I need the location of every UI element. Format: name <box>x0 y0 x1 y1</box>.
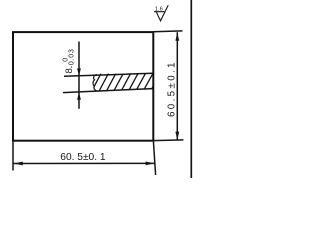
bottom dim right arrow <box>146 162 155 166</box>
drawing frame right border <box>190 0 192 178</box>
right dim upper arrow <box>175 32 179 41</box>
right extension line below part <box>153 141 155 175</box>
part outline (square 60.5 x 60.5) <box>13 32 153 141</box>
right dimension line 60.5 <box>176 32 178 140</box>
local-section wavy boundary <box>93 74 97 91</box>
svg-text:1.6: 1.6 <box>155 6 163 12</box>
bottom extension line (for right dimension) <box>153 139 184 142</box>
svg-text:60.5±0.1: 60.5±0.1 <box>167 60 178 117</box>
top extension line (for right dimension) <box>153 30 183 33</box>
left extension line below part <box>12 141 14 171</box>
arrow pointing down to slot top <box>77 68 81 76</box>
right dim lower arrow <box>175 132 179 141</box>
bottom dim left arrow <box>14 162 23 166</box>
svg-text:60. 5±0. 1: 60. 5±0. 1 <box>60 152 106 163</box>
arrow pointing up to slot bottom <box>77 92 81 100</box>
slot top line <box>64 73 153 76</box>
surface roughness symbol 1.6 <box>154 5 168 21</box>
slot bottom line <box>63 89 153 93</box>
bottom dimension line 60.5 <box>14 162 155 164</box>
section hatching <box>91 72 161 92</box>
dimension line for slot height 8 <box>78 42 80 109</box>
svg-text:-0.03: -0.03 <box>68 48 75 68</box>
